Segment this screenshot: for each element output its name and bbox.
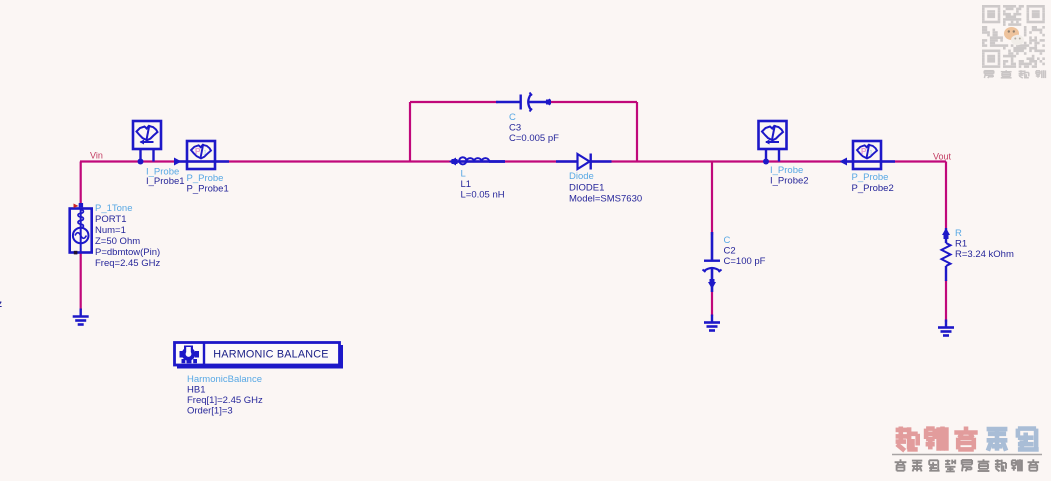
svg-text:Vout: Vout: [933, 152, 952, 162]
svg-text:L=0.05 nH: L=0.05 nH: [461, 190, 505, 201]
svg-text:P_Probe: P_Probe: [852, 172, 889, 183]
wire: [945, 162, 947, 229]
svg-text:Num=1: Num=1: [95, 225, 126, 236]
svg-text:Diode: Diode: [569, 171, 594, 182]
wire: [711, 292, 713, 316]
svg-text:C=0.005 pF: C=0.005 pF: [509, 133, 559, 144]
svg-text:L: L: [461, 169, 466, 180]
svg-text:Order[1]=3: Order[1]=3: [187, 406, 233, 417]
wire: [410, 101, 498, 103]
wire: [80, 162, 82, 206]
svg-text:Freq[1]=2.45 GHz: Freq[1]=2.45 GHz: [187, 395, 263, 406]
svg-text:L1: L1: [461, 179, 472, 190]
logo 易迪拓培训: [896, 427, 918, 451]
svg-text:Model=SMS7630: Model=SMS7630: [569, 194, 642, 205]
wire: [80, 160, 946, 162]
svg-text:C=100 pF: C=100 pF: [724, 256, 766, 267]
svg-text:R1: R1: [955, 239, 967, 250]
svg-text:P_Probe: P_Probe: [187, 173, 224, 184]
resistor R1: [945, 228, 947, 243]
watermark text 微信联系: [984, 71, 994, 78]
QR watermark: [982, 5, 1045, 68]
svg-text:P_Probe2: P_Probe2: [852, 183, 894, 194]
svg-text:I_Probe1: I_Probe1: [146, 176, 185, 187]
svg-text:C3: C3: [509, 123, 521, 134]
svg-text:z: z: [0, 299, 2, 310]
svg-text:PORT1: PORT1: [95, 214, 127, 225]
logo underline: [892, 454, 1042, 456]
svg-text:HarmonicBalance: HarmonicBalance: [187, 374, 262, 385]
wire: [80, 252, 82, 310]
capacitor C3: [496, 101, 520, 104]
wire: [945, 280, 947, 322]
source PORT1 (P_1Tone): [70, 209, 92, 253]
inductor L1: [449, 158, 456, 166]
svg-text:P=dbmtow(Pin): P=dbmtow(Pin): [95, 247, 160, 258]
capacitor C2: [711, 232, 714, 260]
ground (R1): [945, 320, 947, 328]
svg-text:C: C: [509, 112, 516, 123]
logo subtitle 射频和天线设计专家: [895, 459, 907, 470]
wire: [636, 102, 638, 162]
svg-text:R=3.24 kOhm: R=3.24 kOhm: [955, 249, 1014, 260]
probe P_Probe2: [853, 141, 881, 169]
svg-text:Vin: Vin: [90, 151, 103, 161]
svg-text:HB1: HB1: [187, 385, 205, 396]
ground (source): [79, 309, 81, 317]
svg-text:P_Probe1: P_Probe1: [187, 184, 229, 195]
diode DIODE1: [579, 160, 591, 163]
probe I_Probe1: [133, 121, 161, 149]
probe I_Probe2: [759, 121, 787, 149]
svg-text:Freq=2.45 GHz: Freq=2.45 GHz: [95, 258, 160, 269]
wire: [409, 102, 411, 162]
svg-text:HARMONIC BALANCE: HARMONIC BALANCE: [213, 349, 328, 361]
wire: [711, 162, 713, 236]
svg-text:C2: C2: [724, 246, 736, 257]
svg-text:C: C: [724, 235, 731, 246]
ground (C2): [711, 315, 713, 323]
svg-text:R: R: [955, 228, 962, 239]
svg-text:I_Probe: I_Probe: [770, 165, 803, 176]
svg-text:Z=50 Ohm: Z=50 Ohm: [95, 236, 140, 247]
svg-text:P_1Tone: P_1Tone: [95, 203, 133, 214]
svg-text:DIODE1: DIODE1: [569, 183, 604, 194]
svg-text:I_Probe2: I_Probe2: [770, 176, 809, 187]
wire: [548, 101, 637, 103]
WeChat icon: [1004, 27, 1019, 40]
simulation block HARMONIC BALANCE: [177, 345, 343, 369]
probe P_Probe1: [187, 141, 215, 169]
